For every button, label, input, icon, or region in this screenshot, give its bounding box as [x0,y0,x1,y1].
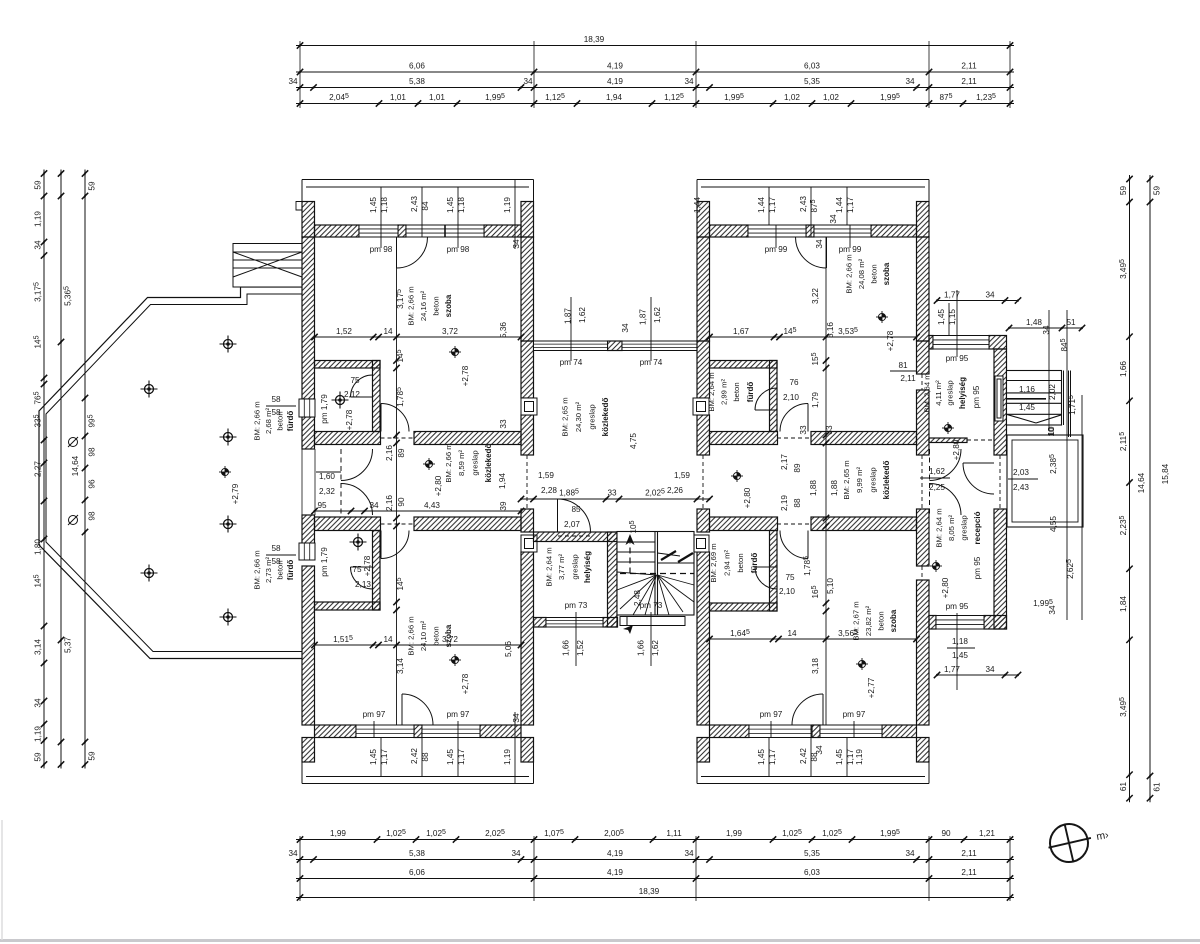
svg-text:pm 73: pm 73 [640,601,663,610]
door corridor to top szoba [381,404,409,432]
extension recepcio level marker [930,560,942,572]
svg-text:+2,78: +2,78 [363,555,372,576]
stair down arrow [623,625,633,634]
svg-text:pm 97: pm 97 [760,710,783,719]
wall center-right d [697,552,710,725]
svg-text:1,84: 1,84 [1119,596,1128,612]
svg-text:+2,80: +2,80 [952,439,961,460]
right wing bottom parapet inner [701,776,925,778]
svg-text:14,64: 14,64 [1137,472,1146,493]
svg-text:1,67: 1,67 [733,327,749,336]
svg-text:2,16: 2,16 [385,445,394,461]
svg-text:BM: 2,66 m: BM: 2,66 m [253,550,262,589]
left wing west wall lower [302,515,315,548]
svg-text:89: 89 [397,448,406,458]
svg-text:85: 85 [571,505,581,514]
svg-text:34: 34 [523,77,533,86]
svg-text:greslap: greslap [471,450,480,475]
svg-text:14: 14 [383,635,393,644]
svg-text:beton: beton [732,382,741,401]
right wing bottom pier east [917,738,930,763]
left corridor level marker [423,458,435,470]
right wing east wall dashed c [921,566,923,580]
svg-text:81: 81 [898,361,908,370]
svg-text:2,11: 2,11 [961,62,977,71]
wall center-right upper [697,237,710,341]
right wing east wall low3 [917,580,930,725]
svg-text:fürdő: fürdő [746,382,755,403]
fuerdo1 east wall [373,361,381,432]
left entry door leader [316,471,341,473]
page border bottom [0,939,1200,942]
left wing bottom pier east [521,738,534,763]
right dim line D [1147,175,1153,802]
svg-text:95: 95 [317,501,327,510]
terrace column 3 [220,429,237,446]
r-corridor top wall main part [811,432,917,445]
extension helyiseg window [933,336,989,350]
left wing bottom window east [422,725,480,738]
left wing bottom wall mid segment [414,725,422,738]
left wing west wall upper [302,237,315,399]
svg-text:1,66: 1,66 [1119,361,1128,377]
right wing bottom wall east segment [882,725,917,738]
svg-text:beton: beton [877,611,886,630]
svg-text:1,52: 1,52 [576,640,585,656]
right wing top parapet outer [697,179,929,181]
door corridor to bottom szoba [381,531,409,559]
svg-text:2,17: 2,17 [780,454,789,470]
svg-text:34: 34 [985,291,995,300]
svg-text:34: 34 [684,849,694,858]
center bottom corridor wall [534,532,618,542]
svg-text:34: 34 [815,745,824,755]
top dim row 3 [296,84,1014,90]
svg-text:3,72: 3,72 [442,635,458,644]
svg-text:1,59: 1,59 [538,471,554,480]
svg-text:1,45: 1,45 [369,749,378,765]
left wing top pier west [302,202,315,238]
svg-text:24,16 m²: 24,16 m² [419,290,428,321]
svg-text:1,45: 1,45 [757,749,766,765]
svg-text:33: 33 [499,419,508,429]
compass symbol [1044,819,1095,867]
left wing top parapet inner [306,186,529,188]
fuerdo2 fixture marker [350,534,367,551]
svg-text:2,16: 2,16 [385,495,394,511]
svg-text:greslap: greslap [960,515,969,540]
svg-text:59: 59 [1153,186,1162,196]
bottom dim row 4 total [296,894,1014,900]
right wing top parapet inner [701,186,925,188]
svg-text:5,38: 5,38 [409,77,425,86]
terrace deck inner outline [46,294,302,652]
left wing vertical dim chain line [396,237,398,725]
corridor bottom wall west [315,517,381,531]
svg-text:1,99: 1,99 [330,829,346,838]
right balcony bottom leaders [769,725,847,777]
right wing east wall upper [917,237,930,341]
svg-text:76: 76 [789,378,799,387]
svg-text:2,42: 2,42 [799,748,808,764]
center corridor dim line [518,496,713,502]
svg-text:34: 34 [985,665,995,674]
svg-text:BM: 2,64 m: BM: 2,64 m [923,373,932,412]
svg-text:beton: beton [432,626,441,645]
svg-text:51: 51 [1066,318,1076,327]
right dim line C [1126,175,1132,802]
svg-text:2,43: 2,43 [410,196,419,212]
stair treads left [617,542,657,615]
svg-text:2,19: 2,19 [780,495,789,511]
svg-text:2,99 m²: 2,99 m² [720,379,729,406]
corridor top wall west part [315,432,381,445]
chimney box left lower [521,535,537,552]
svg-text:4,19: 4,19 [607,849,623,858]
fuerdo2 bottom wall [315,602,381,610]
svg-text:1,45: 1,45 [835,749,844,765]
right balcony top leaders [769,187,847,237]
svg-text:1,48: 1,48 [1026,318,1042,327]
svg-text:6,03: 6,03 [804,868,820,877]
wall left-center upper [521,237,534,341]
left top szoba dim line [311,334,524,340]
svg-text:1,60: 1,60 [319,472,335,481]
right wing vertical dim chain line [825,237,827,725]
svg-text:2,28: 2,28 [541,486,557,495]
wall left-center low [521,415,534,455]
svg-text:4,19: 4,19 [607,62,623,71]
r-fuerdo1 door [755,388,777,410]
svg-text:6,06: 6,06 [409,868,425,877]
svg-text:helyiség: helyiség [583,551,592,583]
svg-text:1,01: 1,01 [390,93,406,102]
corridor top wall main part [414,432,521,445]
center top wall mid pier [608,341,623,351]
center top wall window east [622,341,697,351]
svg-text:98: 98 [88,511,97,521]
svg-text:1,45: 1,45 [1019,403,1035,412]
extension east wall dashed [999,455,1001,509]
svg-text:58: 58 [271,408,281,417]
stair walk line [620,541,694,574]
svg-text:1,88: 1,88 [809,480,818,496]
svg-text:89: 89 [793,463,802,473]
svg-text:4,19: 4,19 [607,868,623,877]
svg-text:1,62: 1,62 [578,307,587,323]
bottom dim row 3 [296,875,1014,881]
svg-text:pm 95: pm 95 [946,602,969,611]
svg-text:közlekedő: közlekedő [484,444,493,483]
left wing fuerdo2 small window [299,543,315,560]
svg-text:beton: beton [736,553,745,572]
extension top wall east [989,336,1007,350]
right wing east wall low [917,390,930,455]
r-corridor bottom wall dashed opening [777,523,811,525]
svg-text:+2,78: +2,78 [345,409,354,430]
right wing top window east [814,225,871,237]
right wing top wall west segment [710,225,749,237]
center east wall open jamb top [697,454,710,456]
svg-text:1,19: 1,19 [503,749,512,765]
left wing top pier west notch [296,202,302,211]
svg-text:1,44: 1,44 [693,197,702,213]
left dim axis circles [68,437,78,525]
svg-text:3,72: 3,72 [442,327,458,336]
svg-text:10: 10 [1047,427,1056,437]
svg-text:24,10 m²: 24,10 m² [419,620,428,651]
svg-text:+2,78: +2,78 [886,330,895,351]
extension stair rail [1064,371,1071,438]
left wing bottom parapet left edge [301,762,303,784]
r-fuerdo2 door [755,567,777,589]
svg-text:2,07: 2,07 [564,520,580,529]
r-corridor top wall dashed opening [777,437,811,439]
left chain ticks [393,334,399,648]
extension helyiseg level marker [942,422,954,434]
svg-text:1,62: 1,62 [929,467,945,476]
svg-text:34: 34 [511,849,521,858]
terrace column 5 [141,565,158,582]
svg-text:34: 34 [829,214,838,224]
right wing east wall dashed b [921,455,923,509]
svg-text:pm 95: pm 95 [972,385,981,408]
r-corridor bottom wall west [710,517,778,531]
left wing top pier east [521,202,534,238]
svg-text:9,99 m²: 9,99 m² [855,467,864,494]
svg-text:pm 97: pm 97 [363,710,386,719]
chimney box right upper [693,398,709,415]
svg-text:90: 90 [941,829,951,838]
left wing bottom window west [356,725,414,738]
right wing top pier east [917,202,930,238]
svg-text:34: 34 [684,77,694,86]
svg-text:34: 34 [34,698,43,708]
svg-text:34: 34 [288,77,298,86]
svg-text:15,84: 15,84 [1161,463,1170,484]
terrace deck outer outline [39,287,302,659]
svg-text:75: 75 [785,573,795,582]
center west wall dashed opening [526,455,528,509]
svg-text:5,06: 5,06 [504,641,513,657]
svg-text:BM: 2,66 m: BM: 2,66 m [253,401,262,440]
svg-text:4,11 m²: 4,11 m² [934,380,943,406]
wall left-center mid [521,341,534,398]
svg-text:2,43: 2,43 [1013,483,1029,492]
left bottom szoba level marker [449,654,461,666]
svg-text:1,87: 1,87 [639,309,648,325]
svg-text:4,43: 4,43 [424,501,440,510]
r-fuerdo2 east wall [770,531,778,612]
svg-text:BM: 2,66 m: BM: 2,66 m [845,254,854,293]
left balcony bottom leaders [381,712,515,784]
svg-text:BM: 2,66 m: BM: 2,66 m [407,286,416,325]
ext dim verticals [1049,310,1082,620]
svg-text:2,10: 2,10 [779,587,795,596]
svg-text:2,26: 2,26 [667,486,683,495]
recepcio window leader [947,647,975,649]
svg-text:1,45: 1,45 [446,197,455,213]
chimney box left upper [521,398,537,415]
svg-text:14,64: 14,64 [71,455,80,476]
right wing top parapet right edge [928,180,930,202]
svg-text:közlekedő: közlekedő [882,461,891,500]
right wing top parapet left edge [696,180,698,202]
helyiseg door [558,499,591,532]
svg-text:1,01: 1,01 [429,93,445,102]
svg-text:szoba: szoba [882,262,891,285]
svg-text:szoba: szoba [444,294,453,317]
svg-text:34: 34 [1042,325,1051,335]
stair box [617,532,694,616]
svg-text:2,11: 2,11 [900,374,916,383]
r-fuerdo2 bottom wall [710,603,778,611]
corridor top wall dashed opening [381,437,415,439]
right wing bottom window west [749,725,812,738]
svg-text:1,88: 1,88 [830,480,839,496]
bottom dim row 1 [296,836,1014,842]
svg-text:34: 34 [815,239,824,249]
stair treads right [658,553,695,615]
left wing bottom parapet outer [302,783,534,785]
helyiseg door dashed [558,535,591,537]
extension recepcio window [936,616,984,630]
svg-text:1,45: 1,45 [952,651,968,660]
svg-text:3,22: 3,22 [811,288,820,304]
page border left [1,820,3,940]
left wing bottom parapet right edge [533,762,535,784]
svg-text:1,19: 1,19 [34,211,43,227]
left corridor dim line [311,508,524,514]
terrace column 1 [220,336,237,353]
svg-text:1,19: 1,19 [34,726,43,742]
svg-text:5,37: 5,37 [64,637,73,653]
extension east wall lower [994,509,1007,629]
svg-text:33: 33 [825,425,834,435]
corridor bottom wall dashed opening [381,523,415,525]
svg-text:34: 34 [905,849,915,858]
left wing top wall mid segment [398,225,406,237]
right wing bottom parapet left edge [696,762,698,784]
svg-text:18,39: 18,39 [639,887,660,896]
svg-text:1,11: 1,11 [666,829,682,838]
svg-text:1,02: 1,02 [823,93,839,102]
svg-text:23,82 m²: 23,82 m² [864,605,873,636]
svg-text:33: 33 [607,489,617,498]
svg-text:59: 59 [34,180,43,190]
r-fuerdo1 top wall [710,361,778,369]
fuerdo1 top wall [315,361,381,369]
svg-text:BM: 2,65 m: BM: 2,65 m [561,397,570,436]
svg-text:1,77: 1,77 [944,291,960,300]
helyiseg bottom wall west bit [534,618,547,628]
left wing fuerdo1 small window [299,399,315,417]
svg-text:+2,79: +2,79 [231,483,240,504]
top dim row 1 total 18,39 [296,42,1014,48]
left wing west wall low2 [302,566,315,725]
svg-text:58: 58 [271,544,281,553]
svg-text:34: 34 [369,501,379,510]
svg-text:BM: 2,66 m: BM: 2,66 m [444,443,453,482]
left dim line B [58,170,64,769]
svg-text:59: 59 [88,181,97,191]
svg-text:18,39: 18,39 [584,35,605,44]
fuerdo2 east wall [373,531,381,611]
svg-text:2,94 m²: 2,94 m² [723,550,732,577]
svg-text:beton: beton [432,296,441,315]
terrace entry stair [233,244,302,288]
svg-text:24,30 m²: 24,30 m² [574,401,583,432]
right bottom szoba dim line [706,636,919,642]
svg-text:pm 1,79: pm 1,79 [320,394,329,424]
extension top wall west [929,336,933,350]
wall center-right a [697,341,710,398]
corridor bottom wall main [414,517,521,531]
svg-text:3,77 m²: 3,77 m² [557,554,566,581]
svg-text:1,77: 1,77 [944,665,960,674]
r-fuerdo1 east wall [770,361,778,432]
right wing bottom pier west [697,738,710,763]
svg-text:2,11: 2,11 [961,868,977,877]
svg-text:1,44: 1,44 [835,197,844,213]
ext 1,48 dim [1006,325,1085,331]
svg-text:pm 97: pm 97 [447,710,470,719]
svg-text:beton: beton [870,264,879,283]
svg-text:1,94: 1,94 [498,473,507,489]
svg-text:+2,80: +2,80 [743,487,752,508]
left wing bottom parapet inner [306,776,529,778]
extension divider wall [929,438,967,443]
svg-text:BM: 2,65 m: BM: 2,65 m [842,460,851,499]
svg-text:+2,78: +2,78 [461,673,470,694]
right wing top wall east segment [871,225,917,237]
svg-text:BM: 2,66 m: BM: 2,66 m [407,616,416,655]
svg-text:5,35: 5,35 [804,849,820,858]
svg-text:34: 34 [905,77,915,86]
top dim extension lines [300,41,1010,108]
left wing top wall east segment [484,225,521,237]
svg-text:+2,77: +2,77 [867,677,876,698]
svg-text:6,03: 6,03 [804,62,820,71]
terrace column 2 [141,381,158,398]
svg-text:2,11: 2,11 [961,77,977,86]
svg-text:75: 75 [350,376,360,385]
ext bottom dim 1,77 [934,672,1021,678]
svg-text:2,48: 2,48 [633,590,642,606]
left wing top window east [406,225,484,237]
svg-text:61: 61 [1153,782,1162,792]
svg-text:2,25: 2,25 [929,483,945,492]
extension bottom wall east [984,616,1007,630]
right wing balcony door top [796,237,827,268]
svg-text:1,45: 1,45 [369,197,378,213]
svg-text:4,19: 4,19 [607,77,623,86]
svg-text:4,55: 4,55 [1049,516,1058,532]
r-door corridor to bottom szoba [780,531,808,559]
svg-text:2,43: 2,43 [799,196,808,212]
svg-text:1,45: 1,45 [446,749,455,765]
svg-text:3,18: 3,18 [811,658,820,674]
svg-text:BM: 2,64 m: BM: 2,64 m [545,547,554,586]
left wing bottom balcony door [402,694,433,725]
svg-text:1,79: 1,79 [811,392,820,408]
bottom dim extension lines [300,836,1010,901]
fuerdo2 door [351,567,373,589]
r-door corridor to top szoba [780,404,808,432]
extension recepcio east door [963,463,994,494]
extension balcony inner [1012,440,1078,522]
left dim line C [82,170,88,769]
